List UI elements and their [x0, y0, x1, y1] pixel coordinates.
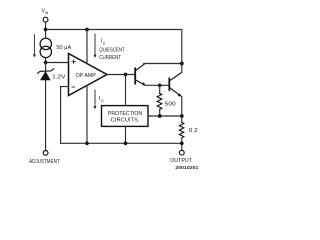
- wire op-amp output: [107, 74, 134, 76]
- node 0.2 top: [180, 114, 184, 118]
- arrow I_D quiescent current: [94, 34, 97, 58]
- wire zener to adjustment terminal: [45, 80, 47, 150]
- label I_D: [101, 38, 106, 45]
- svg-text:CIRCUITS: CIRCUITS: [111, 117, 139, 123]
- resistor R1 500: [159, 85, 161, 93]
- wire Q1 collector: [144, 63, 182, 65]
- svg-text:OUTPUT: OUTPUT: [170, 158, 192, 164]
- wire V_IN terminal to top rail: [45, 22, 47, 29]
- svg-text:IN: IN: [45, 11, 49, 15]
- node below current source: [44, 61, 48, 65]
- zener diode D1 1.2V: [38, 69, 54, 74]
- svg-text:QUIESCENT: QUIESCENT: [99, 48, 125, 54]
- wire protection circuits right pin: [148, 115, 182, 117]
- adjustment terminal: [43, 151, 48, 156]
- current direction arrow: [33, 35, 36, 58]
- svg-text:0.2: 0.2: [189, 128, 198, 134]
- wire Q2 collector to node: [181, 64, 183, 73]
- wire junction to protection circuits: [125, 75, 127, 106]
- node right column top: [180, 62, 184, 66]
- node 500 bottom: [158, 114, 162, 118]
- resistor R2 0.2: [181, 116, 183, 122]
- transistor Q1: [135, 64, 144, 85]
- svg-text:PROTECTION: PROTECTION: [108, 111, 142, 117]
- svg-text:50 μA: 50 μA: [56, 45, 71, 51]
- node Q1 emitter / Q2 base / 500 ohm: [158, 83, 162, 87]
- svg-text:20010201: 20010201: [175, 165, 199, 170]
- svg-text:ADJUSTMENT: ADJUSTMENT: [29, 159, 60, 165]
- node top-left junction: [44, 28, 48, 32]
- protection circuits box: [102, 106, 149, 127]
- wire bottom rail: [61, 142, 182, 144]
- svg-text:1.2V: 1.2V: [52, 74, 66, 80]
- wire top rail to op-amp top: [86, 30, 88, 64]
- wire protection circuits to bottom rail: [125, 126, 127, 143]
- svg-text:O: O: [101, 99, 104, 103]
- wire Q2 emitter down: [181, 96, 183, 115]
- label V_IN: [42, 9, 49, 15]
- wire top rail: [46, 30, 182, 64]
- wire rail to current source: [45, 30, 47, 39]
- wire op-amp bottom to adjustment rail: [86, 85, 88, 143]
- node output rail: [180, 141, 184, 145]
- input terminal: [43, 17, 48, 22]
- label I_O: [99, 96, 104, 103]
- wire current source to node: [45, 58, 47, 63]
- node protection common: [124, 141, 128, 145]
- current source I1 50uA: [40, 38, 51, 57]
- node op-amp supply on top rail: [85, 28, 89, 32]
- svg-text:D: D: [103, 41, 106, 45]
- node op-amp common on bottom rail: [85, 141, 89, 145]
- output terminal: [179, 150, 184, 155]
- wire op-amp inverting input feedback: [61, 87, 69, 144]
- svg-text:500: 500: [165, 102, 176, 108]
- op-amp U1: [69, 54, 108, 96]
- wire node to zener: [45, 63, 47, 72]
- wire Q1 emitter to Q2 base: [146, 84, 169, 86]
- svg-text:CURRENT: CURRENT: [99, 55, 121, 61]
- arrow I_O: [94, 90, 97, 109]
- svg-text:OP AMP: OP AMP: [76, 73, 96, 79]
- transistor Q2: [169, 72, 182, 95]
- node output junction: [124, 73, 128, 77]
- wire node to op-amp + input: [46, 62, 69, 64]
